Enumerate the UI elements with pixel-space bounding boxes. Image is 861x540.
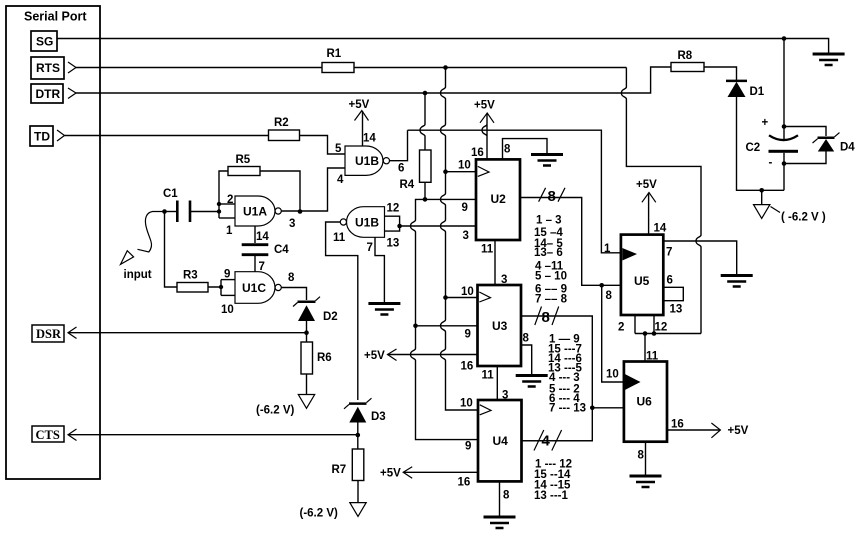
wire R2 to U1B pin5 — [300, 136, 346, 155]
svg-text:8: 8 — [503, 490, 510, 502]
svg-text:D2: D2 — [323, 311, 338, 323]
svg-text:11: 11 — [333, 232, 346, 244]
svg-text:9: 9 — [224, 269, 230, 281]
bus slashes 8 of U2 — [539, 188, 565, 202]
svg-text:2: 2 — [227, 194, 233, 206]
wire D2 to DSR node — [306, 321, 308, 342]
label tick — [771, 207, 781, 213]
svg-text:16: 16 — [471, 147, 484, 159]
svg-text:R1: R1 — [327, 48, 342, 60]
svg-text:8: 8 — [288, 272, 295, 284]
svg-text:1: 1 — [226, 225, 233, 237]
svg-text:10: 10 — [221, 304, 234, 316]
node U1A input pin2 — [217, 202, 221, 206]
wire U5 pin14 to +5V — [648, 193, 650, 235]
wire C2 bottom — [783, 153, 785, 191]
svg-text:-: - — [769, 157, 773, 169]
wire U2 pin11 to U3 pin3 — [494, 240, 496, 285]
svg-text:R5: R5 — [236, 154, 251, 166]
wire U5 pin12 stub — [653, 315, 655, 334]
svg-text:U1C: U1C — [242, 281, 266, 295]
capacitor C1 — [177, 201, 190, 223]
svg-text:D4: D4 — [840, 142, 855, 154]
node C2 minus / D4 — [782, 161, 787, 166]
op-amp U1C nand gate — [235, 272, 275, 304]
svg-text:11: 11 — [646, 351, 659, 363]
wire stub to -6.2V triangle — [761, 190, 763, 204]
svg-text:13– 6: 13– 6 — [534, 247, 563, 259]
svg-text:+5V: +5V — [474, 100, 495, 112]
wire +5V to U3 pin16 — [388, 354, 478, 356]
wire to U3 pin9 — [416, 325, 478, 327]
clock chevron U4 — [480, 405, 491, 415]
svg-text:4: 4 — [542, 433, 551, 450]
svg-text:9: 9 — [465, 441, 471, 453]
bus U4 output — [522, 440, 593, 442]
svg-text:R7: R7 — [332, 464, 347, 476]
wire DTR branch through R4 — [420, 93, 425, 150]
capacitor C4 — [242, 245, 269, 255]
svg-text:11: 11 — [481, 244, 494, 256]
svg-text:R8: R8 — [678, 50, 693, 62]
ground at U6 pin8 — [630, 476, 662, 487]
wire R7 to -6.2V — [357, 481, 359, 503]
svg-text:5: 5 — [335, 143, 342, 155]
svg-text:( -6.2 V ): ( -6.2 V ) — [781, 212, 826, 224]
svg-text:U5: U5 — [634, 274, 650, 288]
wire U2 pin16 to +5V — [482, 114, 487, 160]
svg-text:+5V: +5V — [380, 468, 401, 480]
svg-text:(-6.2 V): (-6.2 V) — [300, 508, 339, 520]
resistor R4 — [420, 150, 432, 182]
svg-text:2: 2 — [618, 322, 624, 334]
wire to U3 pin10 — [446, 297, 478, 299]
wire R3 to U1C inputs — [208, 280, 221, 296]
bus U3 output — [521, 316, 592, 441]
op-amp U1B nand gate top — [345, 146, 383, 175]
svg-text:10: 10 — [461, 286, 474, 298]
svg-text:DTR: DTR — [36, 87, 61, 101]
wire U1C output to D2 — [281, 288, 306, 301]
wire U1B pin14 to +5V — [362, 111, 364, 146]
svg-text:1: 1 — [604, 243, 611, 255]
node U2 pin10 junction — [443, 169, 448, 174]
svg-text:13: 13 — [387, 238, 400, 250]
power +5V above U2 — [480, 113, 494, 123]
wire U1B output no.6 riser — [390, 130, 408, 161]
svg-text:10: 10 — [460, 398, 473, 410]
wire TD to R2 — [65, 135, 269, 137]
svg-text:11: 11 — [482, 370, 495, 382]
node -6.2V supply junction — [759, 188, 764, 193]
wire U5 pin7 to ground — [663, 241, 736, 275]
svg-text:6: 6 — [398, 163, 404, 175]
svg-text:SG: SG — [36, 35, 53, 49]
Serial Port enclosure box — [6, 6, 100, 479]
node CTS/D3/R7 junction — [356, 433, 361, 438]
wire pins2-12 tie — [635, 333, 701, 335]
resistor R2 — [269, 130, 300, 141]
wire SG net — [57, 39, 829, 54]
clock chevron U3 — [479, 292, 490, 302]
svg-text:D1: D1 — [750, 86, 765, 98]
svg-text:CTS: CTS — [36, 428, 60, 442]
svg-text:8: 8 — [606, 290, 613, 302]
diode D2 zener — [298, 300, 316, 303]
resistor R6 — [301, 342, 313, 374]
svg-text:8: 8 — [504, 144, 511, 156]
svg-text:6: 6 — [667, 275, 673, 287]
node U1C input junction — [219, 285, 223, 289]
node U6 pin11 junction — [643, 331, 648, 336]
svg-text:C4: C4 — [274, 244, 289, 256]
wire bus to U6 input — [592, 407, 624, 409]
svg-text:4 --- 3: 4 --- 3 — [549, 372, 580, 384]
wire U1A output — [281, 168, 345, 211]
clock chevron U2 — [478, 166, 489, 176]
node input junction — [162, 209, 167, 214]
svg-text:+5V: +5V — [364, 350, 385, 362]
node C2 plus / D4 — [782, 124, 787, 129]
wire U6 pin16 to +5V — [667, 429, 720, 431]
wire RTS vertical to U5 pins2-12 — [621, 68, 701, 334]
svg-text:D3: D3 — [371, 411, 386, 423]
svg-text:U1B: U1B — [355, 216, 379, 230]
wire input node down to R3 — [165, 212, 178, 288]
bus U2 output — [520, 198, 621, 286]
wire D3 to CTS node — [357, 423, 359, 450]
svg-text:9: 9 — [462, 202, 468, 214]
wire U6 pin8 to ground — [645, 442, 647, 475]
clock triangle U5 — [622, 248, 637, 261]
IC U5 — [621, 235, 663, 315]
svg-text:3: 3 — [463, 230, 469, 242]
wire U1A pin2 stub — [219, 203, 235, 205]
wire C1 left to input node — [165, 211, 178, 213]
svg-text:C1: C1 — [163, 188, 178, 200]
clock triangle U6 — [625, 374, 641, 390]
power +5V arrow at U3 pin16 — [388, 349, 397, 361]
svg-text:(-6.2 V): (-6.2 V) — [256, 405, 295, 417]
ground at U5 pin7 — [721, 276, 753, 287]
wire U4 pin8 to ground — [499, 481, 501, 516]
svg-text:16: 16 — [671, 419, 684, 431]
resistor R7 — [352, 449, 364, 481]
diode D1 — [726, 80, 747, 83]
svg-text:3: 3 — [289, 218, 295, 230]
svg-text:5 – 10: 5 – 10 — [535, 271, 567, 283]
op-amp U1A nand gate — [235, 196, 275, 226]
ground top-right — [813, 54, 845, 65]
resistor R8 — [671, 63, 704, 72]
svg-text:7: 7 — [666, 247, 672, 259]
node U3 pin9 junction — [413, 324, 418, 329]
svg-text:R4: R4 — [400, 179, 415, 191]
node DTR branch — [423, 91, 428, 96]
wire U1B pins12-13 tie — [385, 216, 400, 231]
svg-text:8: 8 — [548, 188, 556, 205]
CTS port box — [32, 426, 64, 442]
wire R4 node down distribution — [411, 199, 479, 439]
input arrow head — [121, 251, 134, 265]
ground at U4 pin8 — [484, 517, 516, 528]
wire U3 pin11 to U4 pin3 — [496, 366, 498, 400]
wire RTS distribution vertical — [441, 68, 479, 411]
DSR input arrow — [68, 327, 77, 339]
ground at U3 pin8 — [516, 376, 548, 387]
power +5V above U1B — [355, 111, 369, 121]
wire D1 to -6.2V node — [737, 97, 785, 190]
wire RTS to R1 — [76, 67, 322, 69]
wire U5 pins6-13 loop — [663, 287, 683, 300]
power +5V above U5 — [642, 193, 656, 203]
SG port box — [31, 31, 57, 51]
wire to U2 pin9 — [425, 198, 476, 200]
DSR port box — [32, 325, 64, 342]
capacitor C2 polarized — [769, 135, 798, 140]
RTS port box — [31, 57, 64, 79]
svg-text:12: 12 — [387, 203, 400, 215]
svg-text:U2: U2 — [491, 192, 507, 206]
wire input squiggle — [138, 212, 165, 253]
wire U6 pin11 up — [644, 334, 646, 362]
svg-text:R3: R3 — [183, 270, 198, 282]
node U1A out/R5 junction — [298, 209, 303, 214]
DTR port box — [31, 84, 63, 103]
svg-text:TD: TD — [34, 130, 50, 144]
svg-text:U1B: U1B — [355, 154, 379, 168]
DTR output arrow — [68, 88, 76, 99]
IC U6 — [624, 362, 667, 442]
wire U1C pin9 stub — [221, 279, 235, 281]
RTS output arrow — [68, 62, 76, 73]
wire U1B pin11 to D3 — [326, 222, 358, 400]
resistor R1 — [322, 63, 354, 73]
svg-text:13: 13 — [670, 304, 683, 316]
power +5V arrow right — [711, 423, 720, 438]
node RTS branch — [443, 65, 448, 70]
node U3 pin10 junction — [443, 295, 448, 300]
power -6.2V below R6 — [298, 395, 314, 409]
wire R1 to corner — [354, 67, 626, 69]
wire U2 pin8 to ground — [503, 139, 548, 160]
ground below U1B pin7 — [368, 304, 400, 315]
wire U1A pin14 to C4 — [254, 226, 256, 243]
svg-text:U6: U6 — [637, 395, 653, 409]
svg-text:14: 14 — [256, 231, 269, 243]
svg-text:7 –– 8: 7 –– 8 — [535, 294, 568, 306]
CTS input arrow — [68, 429, 77, 441]
power -6.2V at C2 — [754, 205, 770, 219]
wire C1 right to U1A inputs — [190, 211, 219, 213]
TD output arrow — [57, 130, 65, 141]
wire D4 branch top — [784, 127, 826, 137]
svg-text:10: 10 — [458, 160, 471, 172]
diode D4 zener — [818, 137, 835, 140]
node SG/C2 junction — [782, 36, 787, 41]
svg-text:12: 12 — [655, 322, 668, 334]
svg-text:4: 4 — [337, 174, 344, 186]
svg-text:R6: R6 — [317, 352, 332, 364]
wire CTS net — [68, 434, 358, 436]
wire net U1B out to U5 pin1 — [408, 130, 621, 253]
svg-text:input: input — [124, 269, 152, 281]
wire C4 to U1C pin7 — [254, 256, 256, 272]
wire to U2 pin3 — [400, 225, 476, 227]
svg-text:U3: U3 — [492, 319, 508, 333]
wire to U2 pin10 — [446, 171, 477, 173]
wire DTR net — [76, 67, 671, 93]
svg-text:7 --- 13: 7 --- 13 — [549, 403, 586, 415]
wire U5 pin2 stub — [634, 315, 636, 334]
wire +5V to U4 pin16 — [403, 471, 478, 473]
diode D3 zener — [349, 402, 367, 405]
svg-text:C2: C2 — [746, 142, 761, 154]
wire SG node down to C2 — [783, 39, 785, 141]
svg-text:+5V: +5V — [636, 179, 657, 191]
wire D4 branch bottom — [784, 152, 826, 164]
svg-text:8: 8 — [523, 333, 530, 345]
svg-text:13 ---1: 13 ---1 — [534, 490, 568, 502]
ground at U2 pin8 — [531, 155, 563, 166]
svg-text:9: 9 — [465, 329, 471, 341]
wire U3 pin8 to ground — [521, 345, 532, 375]
wire R8 to D1 — [704, 67, 737, 80]
svg-text:10: 10 — [606, 369, 619, 381]
wire R5 right feedback — [260, 171, 300, 212]
node pins12-13 mid — [397, 224, 402, 229]
wire U1C pin10 stub — [221, 294, 235, 296]
svg-text:14: 14 — [654, 223, 667, 235]
svg-text:16: 16 — [461, 361, 474, 373]
svg-text:DSR: DSR — [36, 327, 62, 341]
svg-text:+: + — [762, 117, 769, 129]
power -6.2V below R7 — [350, 503, 366, 517]
resistor R3 — [177, 283, 208, 293]
svg-text:14: 14 — [363, 133, 376, 145]
wire U1B pin7 to ground — [375, 237, 384, 302]
svg-text:8: 8 — [542, 309, 550, 326]
IC U4 — [478, 400, 522, 481]
node DSR/D2/R6 junction — [304, 330, 309, 335]
IC U3 — [478, 285, 522, 366]
svg-text:RTS: RTS — [36, 61, 60, 75]
wire DSR net — [68, 332, 307, 334]
node U5 pin8 / U6 pin10 branch — [599, 283, 604, 288]
svg-text:1 – 3: 1 – 3 — [536, 215, 562, 227]
svg-text:16: 16 — [458, 477, 471, 489]
svg-text:R2: R2 — [274, 117, 289, 129]
wire R5 left to U1A inputs — [219, 171, 228, 218]
bus slashes 8 of U3 — [535, 307, 559, 326]
svg-text:U4: U4 — [493, 434, 509, 448]
wire R4 bottom to node — [424, 182, 426, 199]
bus slashes 4 of U4 — [534, 430, 562, 451]
svg-text:U1A: U1A — [243, 205, 267, 219]
svg-text:+5V: +5V — [728, 425, 749, 437]
svg-text:+5V: +5V — [349, 99, 370, 111]
op-amp U1B nand gate mirrored — [347, 207, 385, 238]
svg-text:8: 8 — [638, 450, 645, 462]
power +5V arrow at U4 pin16 — [403, 467, 412, 479]
node U5 pin12 junction — [652, 331, 657, 336]
svg-text:7: 7 — [367, 242, 373, 254]
wire R6 to -6.2V — [306, 374, 308, 395]
svg-text:Serial Port: Serial Port — [24, 10, 87, 24]
resistor R5 — [228, 167, 260, 176]
node R4 output junction — [423, 197, 428, 202]
wire U1A pin1 stub — [219, 217, 235, 219]
TD port box — [30, 126, 53, 146]
node bus join to U6 — [590, 406, 595, 411]
wire branch to U6 pin10 — [602, 285, 624, 382]
node U1A input C1 — [217, 209, 221, 213]
IC U2 — [476, 159, 520, 240]
